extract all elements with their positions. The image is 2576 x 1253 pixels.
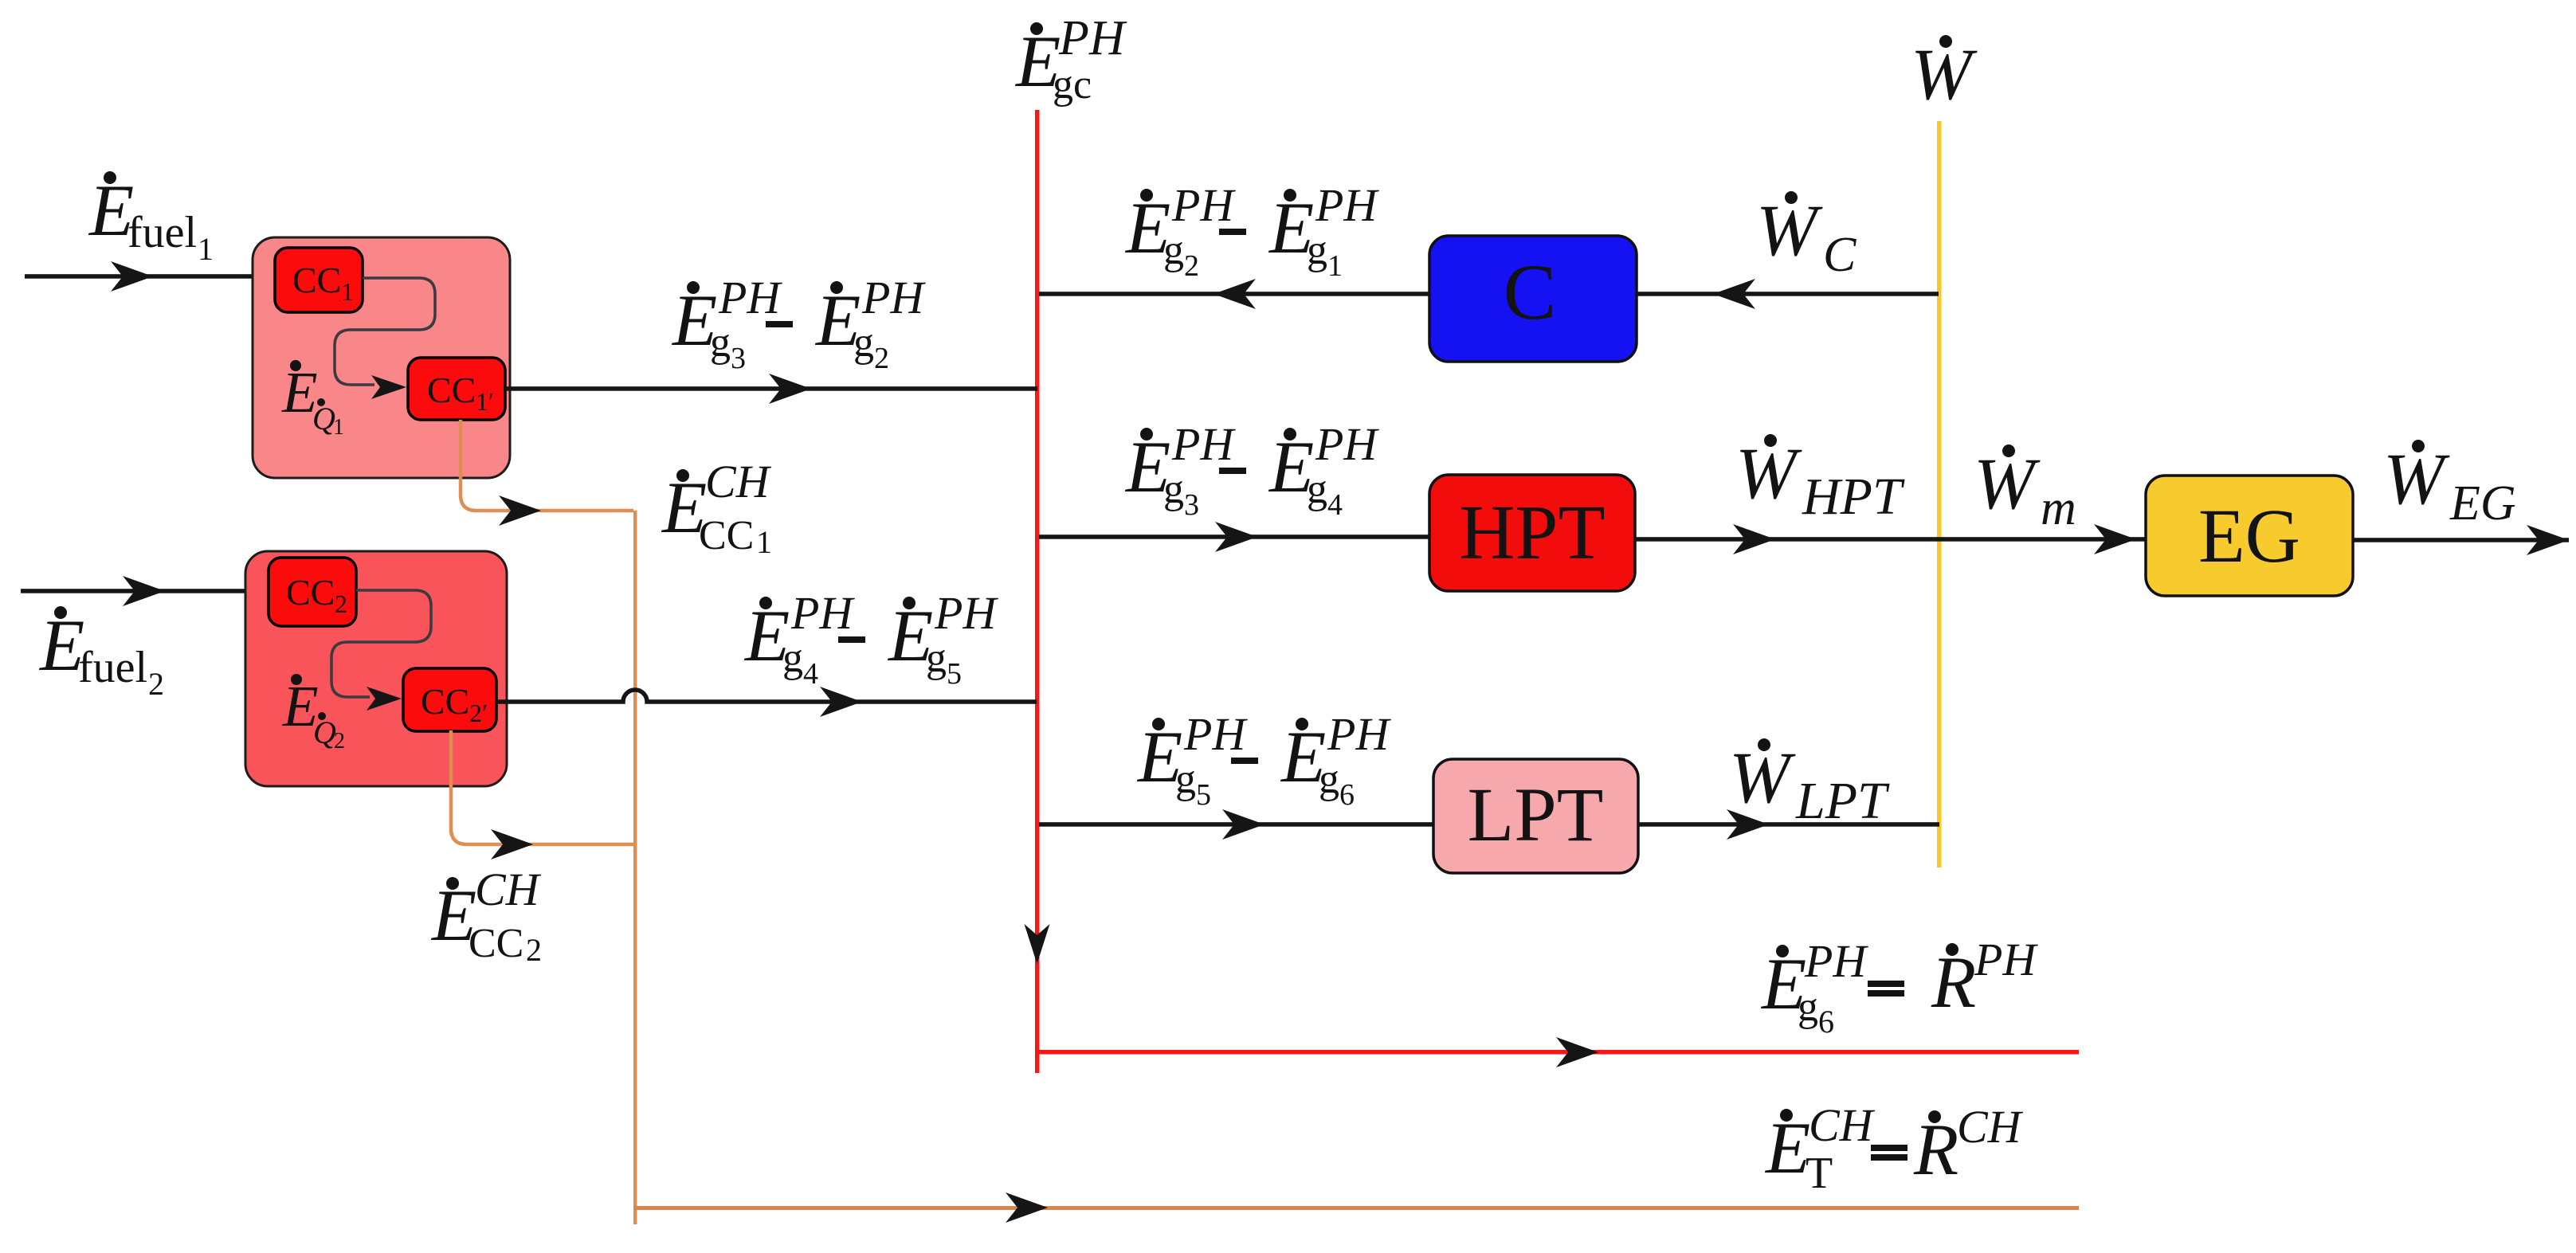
svg-text:LPT: LPT [1795,772,1890,830]
label Egc^PH above red bus [1014,11,1127,108]
label Eg3^PH - Eg2^PH [671,272,926,375]
svg-text:PH: PH [718,272,782,323]
wire: arrow on red residual line [1556,1037,1598,1067]
svg-text:2: 2 [335,589,347,618]
svg-text:3: 3 [1184,488,1199,522]
wire: W_HPT shaft work to yellow bus and EG [1635,524,2146,554]
svg-text:fuel: fuel [127,208,197,257]
label E_fuel2 [38,605,164,702]
wire: orange chemical-exergy bottom line ET^CH [633,1192,2079,1223]
svg-text:PH: PH [1327,708,1391,760]
generator EG box [2146,476,2353,596]
svg-text:4: 4 [1327,488,1343,522]
svg-text:1: 1 [341,277,354,306]
svg-text:2: 2 [1184,249,1199,283]
svg-text:CC: CC [292,260,341,300]
combustor CC2 box [269,558,356,626]
svg-text:2: 2 [148,666,164,702]
turbine HPT box [1429,475,1635,591]
wire: down arrow on red bus [1025,924,1050,964]
svg-text:CC: CC [286,572,335,613]
svg-text:1: 1 [1327,249,1343,283]
label W_HPT [1735,433,1905,526]
svg-text:Q: Q [312,401,335,437]
svg-text:HPT: HPT [1802,468,1905,526]
svg-text:1′: 1′ [476,387,494,416]
wire: fuel 2 input arrow [21,576,271,606]
svg-text:C: C [1823,228,1857,282]
svg-text:PH: PH [1183,708,1248,760]
svg-text:PH: PH [934,587,998,639]
svg-text:g: g [1319,757,1339,802]
svg-text:PH: PH [861,272,926,323]
svg-text:g: g [710,320,731,366]
svg-text:HPT: HPT [1459,490,1605,575]
svg-text:PH: PH [790,587,855,639]
wire: W_LPT work to yellow bus [1638,809,1939,840]
label W_EG [2383,438,2516,531]
wire: orange connector from CC2p [451,730,633,859]
combustion chamber unit 2 outer box [245,551,507,786]
wire: Eg4-Eg5 flow from CC2p to red bus with hop [496,687,1037,717]
svg-text:m: m [2041,481,2076,535]
label Eg6^PH = R^PH residual physical exergy [1760,934,2038,1040]
svg-text:g: g [1307,228,1327,273]
svg-text:PH: PH [1315,179,1379,231]
svg-text:PH: PH [1058,11,1127,65]
label E_Q1 heat exergy inside unit 1 [281,360,344,440]
label W_LPT [1729,737,1890,830]
svg-text:4: 4 [803,657,818,691]
svg-text:5: 5 [947,657,962,691]
svg-text:6: 6 [1818,1004,1834,1040]
wire: Eg3-Eg2 flow from CC1p to red bus [505,374,1037,404]
combustor CC1 box [275,248,363,312]
wire: orange chemical-exergy vertical bus [633,511,637,1224]
svg-text:5: 5 [1196,778,1211,812]
svg-text:1: 1 [198,231,214,267]
wire: orange connector from CC1p [461,420,633,526]
svg-text:EG: EG [2198,493,2300,578]
svg-text:PH: PH [1974,934,2038,985]
svg-text:PH: PH [1171,179,1236,231]
label Eg3^PH - Eg4^PH [1124,418,1379,522]
svg-text:CH: CH [1957,1101,2024,1153]
label Eg5^PH - Eg6^PH [1136,708,1391,812]
label E_Q2 heat exergy inside unit 2 [282,674,345,754]
svg-text:2: 2 [874,342,889,375]
svg-text:PH: PH [1315,418,1379,470]
svg-text:3: 3 [731,342,746,375]
svg-text:g: g [1163,467,1184,512]
svg-text:CC: CC [421,681,469,722]
svg-text:PH: PH [1804,935,1868,987]
node Egc: main gas-stream red bus line [1035,110,2079,1073]
svg-text:CH: CH [1809,1099,1876,1151]
svg-text:CH: CH [475,863,542,915]
svg-text:g: g [1307,467,1327,512]
svg-text:CC: CC [699,513,754,558]
svg-text:C: C [1504,248,1557,336]
combustor CC2p box [403,668,496,731]
svg-text:g: g [1175,757,1196,802]
svg-text:EG: EG [2449,476,2516,531]
svg-text:g: g [853,320,874,366]
svg-text:CC: CC [469,921,523,966]
svg-text:fuel: fuel [78,643,147,692]
svg-text:g: g [782,636,803,681]
label W_C [1756,190,1857,282]
svg-text:PH: PH [1171,418,1236,470]
svg-text:gc: gc [1053,62,1092,108]
label Eg4^PH - Eg5^PH [743,587,998,691]
svg-text:LPT: LPT [1468,772,1604,857]
svg-text:2: 2 [334,729,345,754]
svg-text:g: g [1798,985,1818,1030]
wire: S-curve duct inside unit 2 [331,590,431,711]
svg-text:T: T [1806,1149,1833,1198]
wire: fuel 1 input arrow [25,261,276,292]
node W: yellow work bus line [1937,121,1942,867]
label ET^CH = R^CH residual chemical exergy [1764,1099,2024,1198]
svg-text:2: 2 [526,932,542,968]
label W_m [1974,443,2076,535]
svg-text:6: 6 [1339,778,1355,812]
label Eg2^PH - Eg1^PH [1124,179,1379,283]
svg-text:CH: CH [705,456,772,507]
wire: Eg5-Eg6 flow from red bus to LPT [1039,809,1433,840]
svg-text:1: 1 [756,524,772,560]
wire: W_EG electrical output arrow [2353,525,2569,555]
label E_CC2^CH [430,863,542,968]
label E_fuel1 [88,170,214,267]
svg-text:1: 1 [333,415,344,440]
turbine LPT box [1433,759,1638,873]
wire: Eg2-Eg1 flow from compressor to red bus [1039,279,1430,309]
compressor C box [1429,236,1637,362]
svg-text:2′: 2′ [469,699,488,727]
combustion chamber unit 1 outer box [253,237,510,478]
svg-text:g: g [1163,228,1184,273]
wire: Wc work input from yellow bus to compressor [1637,279,1939,309]
svg-text:CC: CC [427,370,476,410]
wire: S-curve duct inside unit 1 [335,278,435,399]
svg-text:Q: Q [313,715,336,750]
label W above yellow bus [1911,33,1978,115]
wire: Eg3-Eg4 flow from red bus to HPT [1039,522,1430,552]
svg-text:g: g [926,636,947,681]
combustor CC1p box [408,358,505,420]
label E_CC1^CH [661,456,772,560]
